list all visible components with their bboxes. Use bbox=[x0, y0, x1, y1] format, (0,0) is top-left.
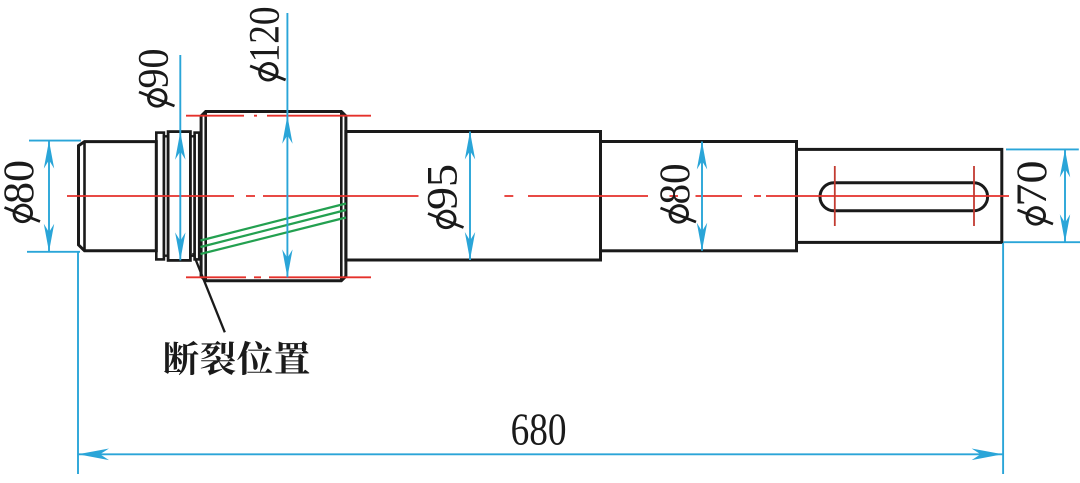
gear pitch line bottom bbox=[186, 276, 371, 278]
arrowhead phi80L top bbox=[44, 141, 54, 169]
keyway end mark right bbox=[973, 166, 975, 226]
extension line 680 right bbox=[1002, 243, 1004, 474]
leader line to fracture bbox=[193, 253, 225, 332]
arrowhead phi120 bottom bbox=[282, 249, 292, 277]
svg-text:80: 80 bbox=[652, 164, 699, 205]
arrowhead phi80R bottom bbox=[697, 223, 707, 251]
extension line phi80 left bottom bbox=[27, 251, 80, 253]
svg-text:80: 80 bbox=[0, 160, 43, 204]
label phi80 right bbox=[652, 164, 699, 225]
label phi70 bbox=[1009, 161, 1056, 227]
arrowhead phi70 top bbox=[1060, 149, 1070, 177]
svg-text:90: 90 bbox=[131, 49, 178, 89]
arrowhead phi90 bottom bbox=[175, 232, 185, 260]
arrowhead 680 right bbox=[972, 449, 1003, 461]
shaft section phi80 left journal bbox=[79, 142, 157, 251]
extension line phi80 left top bbox=[29, 140, 81, 142]
dimension line phi120 bbox=[286, 13, 288, 277]
text char 位 bbox=[237, 341, 272, 375]
arrowhead phi80L bottom bbox=[44, 224, 54, 252]
label phi95 bbox=[420, 164, 467, 230]
fracture line 2 bbox=[201, 210, 347, 247]
text char 裂 bbox=[201, 341, 236, 376]
text char 断 bbox=[164, 341, 198, 375]
dimension line phi90 bbox=[179, 55, 181, 260]
fracture line 3 bbox=[201, 218, 347, 255]
chamfer line left end bbox=[83, 142, 86, 251]
ring 1 bbox=[156, 133, 164, 260]
svg-text:120: 120 bbox=[242, 6, 289, 62]
shaft section phi95 bbox=[346, 132, 601, 261]
arrowhead phi120 top bbox=[282, 116, 292, 144]
dimension line phi80 left bbox=[48, 141, 50, 252]
keyway slot bbox=[820, 183, 988, 211]
gear pitch line top bbox=[186, 115, 371, 117]
relief groove 2 bbox=[190, 136, 194, 255]
arrowhead phi70 bottom bbox=[1060, 214, 1070, 242]
keyway end mark left bbox=[834, 166, 836, 226]
extension line phi70 top bbox=[1006, 148, 1079, 150]
arrowhead phi95 bottom bbox=[465, 232, 475, 260]
centerline axis bbox=[67, 195, 1009, 197]
shaft section phi120 gear seat block bbox=[201, 112, 346, 281]
text char 置 bbox=[275, 341, 309, 373]
relief groove 1 bbox=[164, 136, 168, 255]
dimension line phi70 bbox=[1064, 149, 1066, 242]
svg-text:680: 680 bbox=[511, 404, 567, 455]
label phi90 bbox=[131, 49, 178, 109]
extension line 680 left bbox=[77, 253, 79, 475]
extension line phi70 bottom bbox=[1004, 241, 1080, 243]
ring phi90 bbox=[168, 132, 190, 261]
label phi120 bbox=[242, 6, 289, 82]
dimension line 680 bbox=[78, 453, 1003, 455]
arrowhead phi95 top bbox=[465, 132, 475, 160]
dimension line phi95 bbox=[469, 132, 471, 261]
arrowhead 680 left bbox=[78, 449, 109, 461]
svg-text:70: 70 bbox=[1009, 161, 1056, 207]
arrowhead phi80R top bbox=[697, 142, 707, 170]
svg-text:95: 95 bbox=[420, 164, 467, 210]
fracture line 1 bbox=[201, 204, 347, 241]
label phi80 left bbox=[0, 160, 43, 224]
ring 2 bbox=[195, 133, 200, 260]
shaft section phi70 end bbox=[797, 149, 1002, 242]
dimension line phi80 right bbox=[701, 142, 703, 251]
chamfer line block left bbox=[204, 112, 207, 281]
chamfer line block right bbox=[340, 112, 343, 281]
shaft section phi80 right bbox=[601, 142, 797, 251]
arrowhead phi90 top bbox=[175, 132, 185, 160]
